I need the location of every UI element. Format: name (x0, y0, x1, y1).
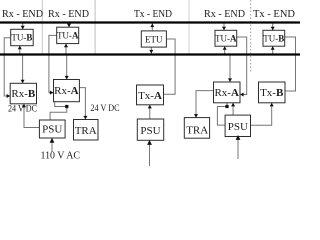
svg-text:TU-A: TU-A (57, 31, 79, 41)
svg-text:Tx-B: Tx-B (260, 87, 284, 99)
svg-text:TU-A: TU-A (215, 34, 237, 44)
svg-text:Rx - END: Rx - END (48, 8, 89, 20)
svg-text:PSU: PSU (140, 125, 160, 137)
svg-text:24 V DC: 24 V DC (8, 104, 37, 114)
svg-text:Rx-A: Rx-A (54, 85, 79, 97)
svg-text:Rx - END: Rx - END (2, 8, 43, 20)
svg-text:Tx - END: Tx - END (253, 8, 295, 20)
svg-text:TRA: TRA (75, 125, 97, 137)
svg-text:ETU: ETU (145, 34, 163, 44)
svg-text:Tx - END: Tx - END (134, 8, 172, 20)
svg-text:Rx - END: Rx - END (204, 8, 245, 20)
svg-text:PSU: PSU (42, 124, 62, 136)
svg-text:Tx-A: Tx-A (138, 90, 162, 102)
svg-text:TRA: TRA (186, 125, 208, 137)
svg-text:Rx-A: Rx-A (214, 87, 239, 99)
svg-text:Rx-B: Rx-B (11, 88, 36, 100)
svg-text:110 V AC: 110 V AC (41, 151, 81, 162)
svg-text:TU-B: TU-B (263, 34, 284, 44)
svg-text:TU-B: TU-B (11, 33, 32, 43)
svg-text:PSU: PSU (228, 121, 248, 133)
svg-text:24 V DC: 24 V DC (91, 103, 120, 113)
